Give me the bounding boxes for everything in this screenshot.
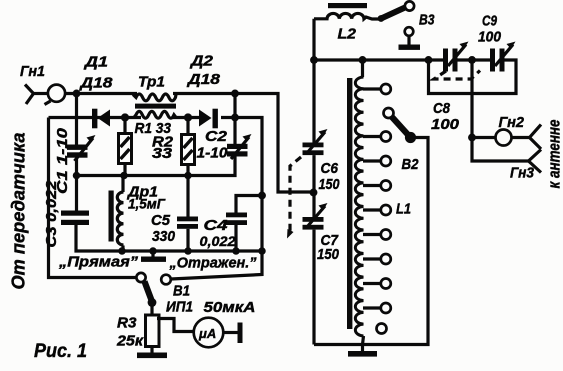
svg-text:С3 0,022: С3 0,022	[43, 180, 60, 248]
wire diode D1 row	[49, 116, 142, 119]
inductor L1 core	[347, 78, 352, 329]
switch В3 lever	[364, 1, 414, 22]
meter right terminal	[223, 323, 242, 344]
capacitor C9 100 (variable)	[490, 42, 516, 72]
capacitor C2 (trimmer 1-10)	[227, 134, 252, 159]
switch В1 contact right	[161, 275, 171, 285]
svg-text:L1: L1	[396, 201, 411, 218]
wire C2 drop	[233, 94, 236, 146]
resistor R3 25к	[146, 315, 160, 353]
wire C1 to C3	[75, 158, 78, 211]
svg-text:Гн3: Гн3	[510, 165, 535, 182]
capacitor C4 0,022	[226, 196, 262, 252]
inductor L1 winding	[355, 60, 363, 345]
svg-text:С6: С6	[321, 160, 339, 177]
wire C8 C9 gang dashed	[434, 71, 480, 80]
node junction C4 top to sense line	[258, 192, 266, 200]
node junction rail-251 end	[258, 247, 266, 255]
wire L2 left rail	[312, 19, 315, 144]
node junction rail-251 Dr1	[118, 247, 126, 255]
node junction top-C1	[73, 90, 81, 98]
wire C3 to rail-251	[76, 225, 262, 251]
wire to Gn3	[472, 138, 529, 162]
wire C8C9 mid to Gn2	[470, 60, 473, 138]
svg-text:С8: С8	[433, 100, 451, 117]
svg-text:Д2: Д2	[189, 53, 214, 70]
switch В1 contact left	[136, 273, 145, 282]
svg-text:Д18: Д18	[78, 75, 113, 92]
svg-text:50мкА: 50мкА	[204, 300, 256, 316]
node junction C8-C9 mid	[468, 56, 476, 64]
capacitor C3 0,022	[61, 211, 89, 226]
node Gn2 fork	[512, 125, 542, 150]
node junction rail-60 left	[310, 56, 318, 64]
resistor R2 33	[182, 118, 195, 176]
svg-text:к антенне: к антенне	[546, 120, 563, 189]
node junction C8 left	[425, 56, 433, 64]
connector Гн1	[45, 85, 66, 105]
wire lever to R3	[150, 303, 153, 315]
svg-text:Гн2: Гн2	[499, 114, 525, 131]
svg-text:В2: В2	[402, 156, 420, 173]
node junction R2 top	[184, 113, 192, 121]
meter ИП1 50мкА	[194, 318, 224, 348]
resistor R1 33	[119, 118, 132, 176]
wire left frame	[49, 118, 137, 278]
node junction L1 top	[359, 56, 367, 64]
svg-text:В1: В1	[173, 283, 190, 300]
svg-text:100: 100	[478, 29, 502, 46]
svg-text:„Прямая”: „Прямая”	[58, 254, 139, 271]
L1 taps with contacts	[363, 84, 391, 334]
svg-text:Гн1: Гн1	[20, 63, 45, 80]
wire C1 drop	[75, 94, 78, 146]
svg-text:Тр1: Тр1	[138, 74, 165, 91]
svg-text:В3: В3	[419, 12, 435, 29]
svg-text:С5: С5	[151, 212, 171, 229]
capacitor C5 330	[177, 176, 198, 252]
svg-text:1,5мГ: 1,5мГ	[128, 196, 166, 212]
node junction D2-C2 cross	[231, 114, 239, 122]
diode Д2 (Д18)	[199, 109, 218, 129]
switch В2 wiper	[384, 108, 417, 143]
node junction rail-175 R1/Dr1	[120, 172, 128, 180]
node junction rail-251 gnd	[149, 247, 157, 255]
svg-text:100: 100	[431, 116, 460, 133]
inductor L2	[314, 3, 367, 19]
node junction rail-175 at C1	[73, 172, 81, 180]
svg-text:150: 150	[317, 246, 340, 263]
wire C7 to bottom rail	[312, 230, 315, 345]
ground at R3	[137, 353, 167, 359]
svg-text:330: 330	[152, 228, 176, 245]
svg-text:Рис. 1: Рис. 1	[34, 341, 87, 362]
node junction top-C2	[231, 90, 239, 98]
svg-text:25к: 25к	[116, 333, 145, 350]
wire diode D2 row	[171, 118, 262, 280]
svg-text:150: 150	[319, 176, 341, 193]
svg-text:μА: μА	[198, 326, 216, 341]
wire bridge mid rail y175	[77, 156, 236, 176]
ground (L1 bottom)	[348, 345, 377, 357]
transformer Tr1 primary	[133, 94, 176, 101]
ground (bridge common)	[141, 251, 166, 262]
node junction Gn2	[468, 134, 476, 142]
svg-text:Д18: Д18	[186, 71, 221, 88]
svg-text:С2: С2	[205, 128, 228, 145]
connector Гн2	[496, 130, 512, 146]
wire C6 to C7	[312, 155, 316, 217]
wire main y60 line	[314, 60, 516, 94]
wire top line Tr1 to right	[173, 94, 314, 193]
switch В3 fixed contact	[399, 27, 421, 50]
svg-text:L2: L2	[338, 26, 357, 43]
wire bottom rail right block	[314, 138, 428, 345]
capacitor C8 100 (variable)	[443, 42, 469, 72]
transformer Tr1 core	[135, 104, 176, 109]
svg-text:R3: R3	[117, 315, 137, 332]
svg-text:Д1: Д1	[83, 54, 108, 71]
svg-text:33: 33	[152, 145, 173, 162]
svg-text:С4: С4	[204, 217, 229, 234]
node junction rail-251 C4	[232, 247, 240, 255]
wire R3 to meter	[157, 319, 193, 332]
capacitor C6 150 (variable)	[303, 129, 328, 155]
svg-text:От передатчика: От передатчика	[8, 133, 29, 290]
wire to Gn2	[472, 136, 496, 139]
svg-text:ИП1: ИП1	[166, 300, 193, 316]
svg-text:„Отражен.”: „Отражен.”	[169, 255, 257, 272]
svg-text:С9: С9	[482, 13, 498, 30]
node junction rail-192	[310, 189, 318, 197]
svg-text:1-10: 1-10	[197, 146, 228, 162]
node junction rail-251 C5	[184, 247, 192, 255]
node Gn1 fork (from transmitter input)	[25, 85, 49, 105]
node Gn3 fork	[529, 150, 542, 173]
diode Д1 (Д18)	[92, 109, 110, 129]
transformer Tr1 secondary	[134, 111, 176, 118]
capacitor C1 (trimmer 1-10)	[67, 135, 96, 161]
switch В1 lever	[145, 282, 157, 307]
node junction rail-175 R2/C5	[184, 172, 192, 180]
wire top line Gn1 to Tr1	[65, 92, 137, 95]
node junction R1 top	[121, 113, 129, 121]
svg-text:0,022: 0,022	[200, 233, 236, 249]
wire C6 C7 gang dashed	[287, 157, 301, 239]
choke Др1 1,5мГ	[109, 176, 124, 252]
capacitor C7 150 (variable)	[303, 203, 328, 230]
